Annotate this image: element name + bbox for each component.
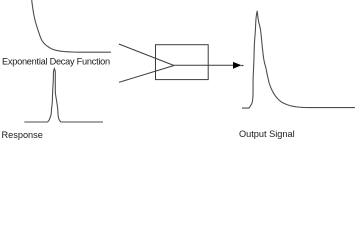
svg-text:Response: Response [2, 130, 43, 140]
wire: short stub after arrowhead [241, 65, 243, 67]
wire: upper diagonal into box [119, 44, 174, 66]
wire: lower diagonal into box [119, 66, 174, 83]
svg-text:Output Signal: Output Signal [239, 129, 295, 139]
response impulse curve [24, 69, 103, 122]
exponential decay curve [32, 0, 111, 52]
svg-text:Exponential Decay Function: Exponential Decay Function [2, 57, 110, 67]
arrowhead [233, 63, 240, 69]
wire: arrow shaft [174, 64, 240, 66]
output signal curve [242, 11, 355, 108]
box (system block) [156, 45, 209, 80]
